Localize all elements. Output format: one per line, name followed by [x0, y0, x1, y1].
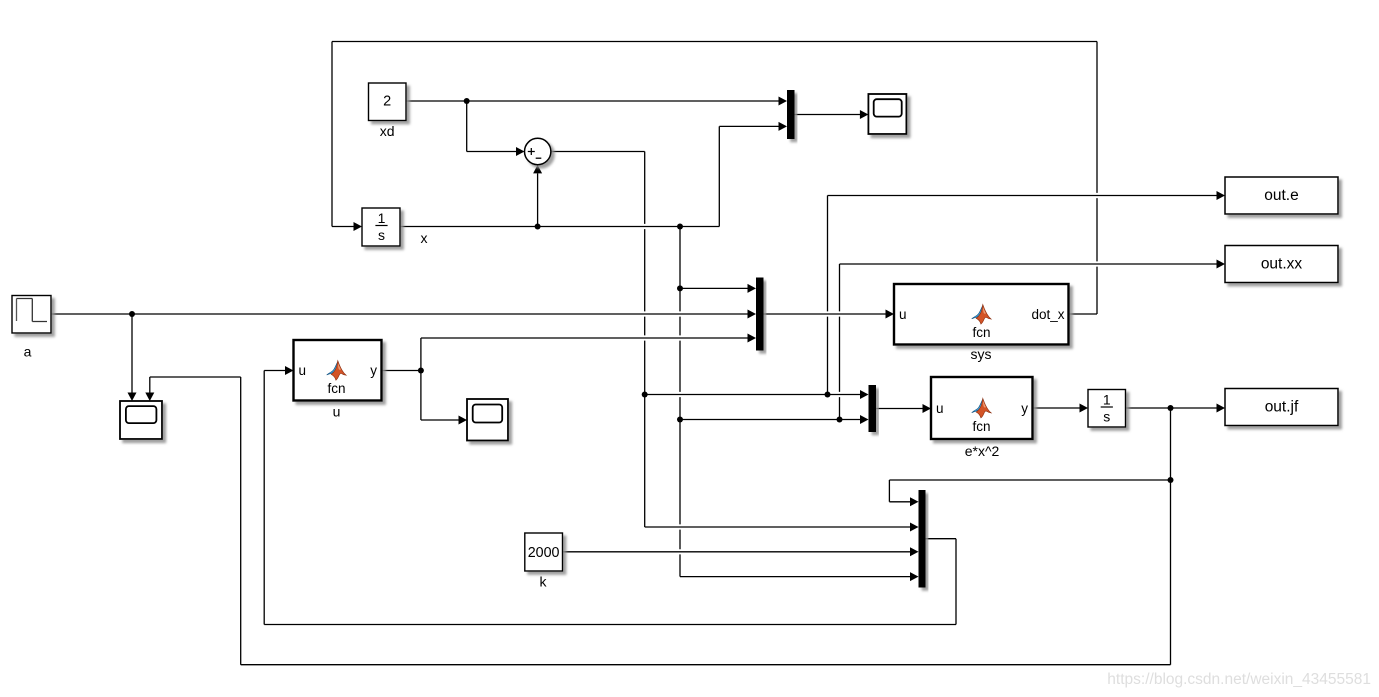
arrow into mux B port3: [748, 334, 757, 343]
wire: mux C output to e*x^2: [876, 408, 923, 410]
mux C: [869, 385, 877, 432]
arrow into mux D port3: [910, 547, 919, 556]
arrow into mux A port1: [779, 97, 788, 106]
node x to sum: [535, 224, 541, 230]
arrow into mux C port1: [860, 390, 869, 399]
svg-text:fcn: fcn: [972, 419, 990, 434]
arrow into scope left input1: [128, 393, 137, 402]
arrow into sum bottom: [533, 165, 542, 174]
wire: constant xd output to mux A: [406, 100, 779, 102]
node xd branch: [464, 98, 470, 104]
matlab function block e*x^2: [931, 377, 1033, 439]
wire: u fcn output to junction: [382, 370, 421, 372]
arrow into scope left input2: [145, 393, 154, 402]
constant block k: [525, 533, 563, 571]
wire: x up to out.xx: [840, 264, 1217, 420]
arrow into mux B port2: [748, 310, 757, 319]
wire: step a long output to mux B input2: [51, 313, 748, 315]
arrow into sys u: [886, 310, 895, 319]
wire: x branch up to sum minus input: [537, 173, 539, 226]
svg-text:xd: xd: [380, 123, 395, 139]
svg-text:a: a: [24, 344, 32, 360]
wire: x vertical down with gaps: [679, 227, 681, 577]
svg-text:k: k: [540, 574, 548, 590]
svg-text:u: u: [899, 307, 907, 322]
wire: e*x^2 output to integrator: [1033, 407, 1080, 409]
svg-text:out.xx: out.xx: [1261, 255, 1303, 272]
node e branch: [642, 392, 648, 398]
node e to out.e: [825, 392, 831, 398]
arrow into mux D port1: [910, 497, 919, 506]
arrow into out.xx: [1217, 260, 1226, 269]
arrow into integrator jf: [1080, 404, 1089, 413]
svg-text:u: u: [333, 404, 341, 420]
svg-text:e*x^2: e*x^2: [965, 443, 1000, 459]
node x to out.xx: [837, 417, 843, 423]
svg-text:s: s: [1103, 408, 1110, 424]
node x low branch: [677, 417, 683, 423]
wire: e up to out.e: [828, 196, 1217, 395]
svg-text:y: y: [1021, 401, 1028, 416]
wire: mux D output loop to u fcn: [264, 539, 956, 625]
node jf low branch: [1168, 477, 1174, 483]
arrow into mux C port2: [860, 415, 869, 424]
scope2: [467, 399, 508, 441]
scope left: [120, 401, 162, 439]
matlab function block u: [294, 340, 382, 401]
outport out.jf: [1225, 389, 1338, 426]
wire: sum output e going down: [551, 152, 645, 395]
wire: jf down and to mux D input1: [889, 408, 1170, 502]
arrow into integrator x: [354, 222, 363, 231]
wire: e to mux C input1: [645, 394, 861, 396]
arrow into out.jf: [1217, 404, 1226, 413]
svg-text:u: u: [299, 363, 307, 378]
outport out.e: [1225, 177, 1338, 214]
arrow into mux A port2: [779, 122, 788, 131]
wire: e down to mux D input2: [645, 395, 911, 528]
svg-text:2000: 2000: [528, 545, 560, 561]
node u branch: [418, 368, 424, 374]
wire: integrator jf output to out.jf: [1126, 407, 1217, 409]
arrow into out.e: [1217, 191, 1226, 200]
integrator block jf: [1088, 390, 1126, 428]
node x branch: [677, 224, 683, 230]
wire: feedback vertical with crossing gaps: [1096, 42, 1098, 315]
wire: x to mux D input4: [680, 576, 910, 578]
wire: feedback loop top (dot_x to integrator x): [332, 42, 1097, 315]
svg-text:out.jf: out.jf: [1265, 398, 1299, 415]
arrow into sum left: [516, 147, 525, 156]
arrow into mux B port1: [748, 284, 757, 293]
arrow into u fcn: [285, 366, 294, 375]
wire: mux A output to scope1: [795, 114, 861, 116]
arrow into e*x^2 u: [923, 404, 932, 413]
svg-text:2: 2: [383, 94, 391, 110]
svg-text:https://blog.csdn.net/weixin_4: https://blog.csdn.net/weixin_43455581: [1107, 671, 1371, 688]
arrow into scope1: [860, 110, 869, 119]
outport out.xx: [1225, 246, 1338, 283]
svg-text:s: s: [378, 227, 385, 243]
wire: u up to mux B input3: [421, 338, 748, 371]
scope1: [868, 94, 906, 134]
wire: u down to scope2: [421, 371, 459, 421]
wire: constant k output to mux D input3: [563, 551, 911, 553]
svg-text:y: y: [370, 363, 377, 378]
svg-text:1: 1: [378, 210, 386, 226]
node jf branch: [1168, 405, 1174, 411]
wire: x to mux B input1: [680, 287, 748, 289]
sum block: [525, 138, 551, 164]
node a branch: [129, 311, 135, 317]
step block a: [12, 296, 51, 334]
svg-text:out.e: out.e: [1264, 187, 1298, 204]
arrow into scope2: [459, 416, 468, 425]
svg-text:1: 1: [1103, 392, 1111, 408]
svg-text:dot_x: dot_x: [1031, 307, 1064, 322]
wire: integrator x output: [400, 126, 779, 226]
arrow into mux D port4: [910, 572, 919, 581]
wire: branch xd to sum: [467, 101, 517, 152]
svg-text:u: u: [936, 401, 944, 416]
constant block xd: [369, 83, 407, 121]
wire: a branch down to scope: [131, 314, 133, 393]
wire: jf bottom loop to scope: [150, 377, 1171, 665]
wire: x to mux C input2: [680, 419, 860, 421]
wire: u fcn input from loop: [264, 371, 285, 625]
svg-text:x: x: [421, 230, 428, 246]
node x mid branch: [677, 285, 683, 291]
svg-text:fcn: fcn: [327, 381, 345, 396]
matlab function block sys: [894, 284, 1069, 345]
mux A: [787, 90, 795, 139]
integrator block x: [362, 208, 400, 246]
svg-text:sys: sys: [971, 346, 992, 362]
mux D: [919, 490, 926, 588]
svg-text:fcn: fcn: [972, 325, 990, 340]
wire: mux B output to sys: [764, 313, 886, 315]
arrow into mux D port2: [910, 523, 919, 532]
mux B: [756, 278, 764, 351]
